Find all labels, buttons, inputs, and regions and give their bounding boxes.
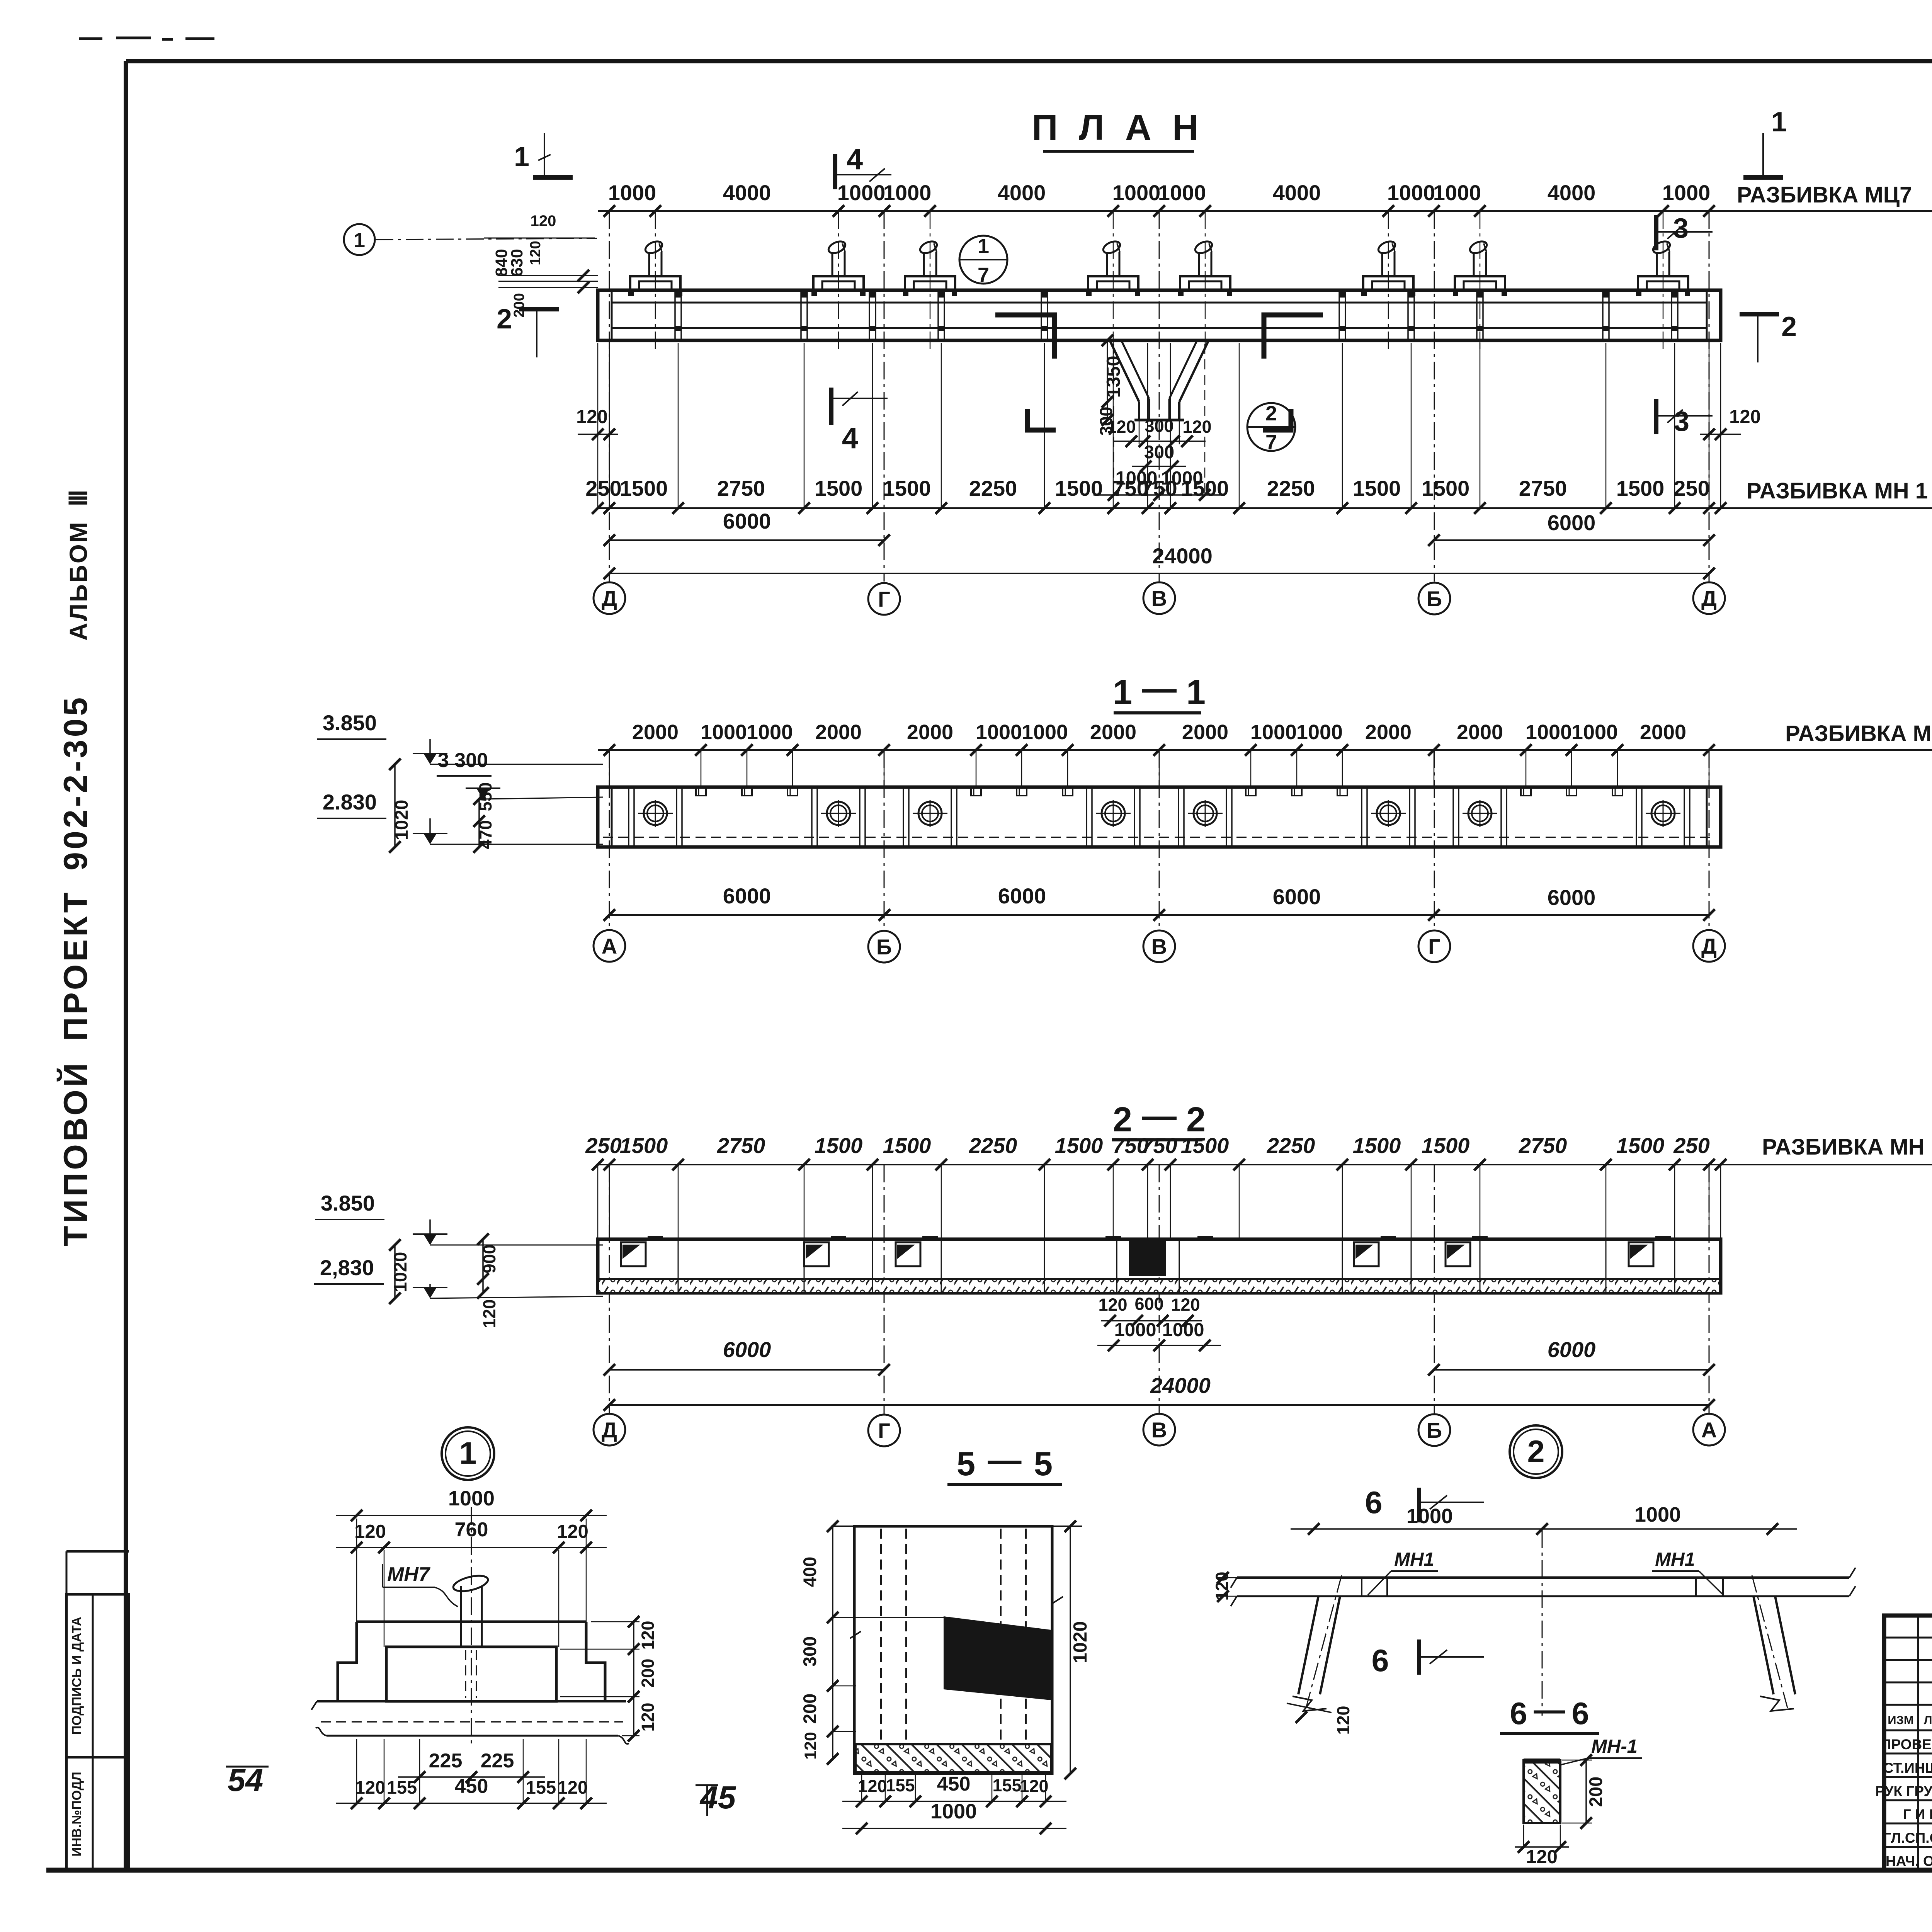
svg-text:ИЗМ: ИЗМ [1888,1713,1914,1727]
svg-text:1000: 1000 [1571,721,1618,744]
detail 2 joint marks [1362,1578,1723,1596]
svg-text:РАЗБИВКА МН 1: РАЗБИВКА МН 1 [1747,478,1928,503]
svg-text:2750: 2750 [717,476,765,500]
svg-text:МН-1: МН-1 [1591,1736,1638,1757]
svg-text:2000: 2000 [1640,721,1686,744]
section 5-5 bottom dims [842,1801,1066,1802]
svg-text:750: 750 [1141,1133,1177,1158]
left strip table [66,1594,129,1870]
svg-text:1000: 1000 [1433,180,1481,205]
svg-text:120: 120 [480,1299,499,1328]
svg-text:6000: 6000 [723,509,771,533]
section 6-6 dim 200 [1585,1760,1587,1823]
svg-text:2.830: 2.830 [323,790,377,814]
svg-text:РУК ГРУППЫ: РУК ГРУППЫ [1875,1783,1932,1799]
svg-text:470: 470 [476,820,495,849]
section 2-2 dim 6000 left [609,1369,884,1371]
svg-text:1000: 1000 [1387,180,1435,205]
svg-text:2250: 2250 [969,476,1017,500]
svg-text:6: 6 [1371,1643,1389,1678]
svg-text:А: А [602,934,617,958]
section 2-2 axis circles [594,1414,625,1446]
svg-text:120: 120 [1182,417,1211,437]
svg-text:1500: 1500 [1422,1133,1470,1158]
svg-text:РАЗБИВКА МН 1: РАЗБИВКА МН 1 [1762,1134,1932,1160]
svg-text:1: 1 [1113,673,1132,712]
plan funnel dim 1350 [1107,340,1108,420]
svg-text:Д: Д [602,1418,617,1442]
section 1-1 end walls [611,787,613,847]
detail 1 dim 225-225 [398,1776,545,1778]
plan panel joints [674,290,676,340]
svg-text:1500: 1500 [1422,476,1470,500]
detail 1 base line [317,1700,626,1702]
svg-text:2: 2 [1781,311,1797,342]
section 1-1 axis circles [594,930,625,962]
section 2-2 dim 1020 [394,1245,396,1298]
detail 1 dim 120-155-450-155-120 [336,1803,607,1804]
svg-text:120: 120 [1019,1776,1048,1796]
svg-text:400: 400 [799,1557,820,1587]
detail 2 dim 1000-1000 [1291,1528,1797,1530]
svg-text:120: 120 [858,1776,887,1796]
svg-text:2000: 2000 [1365,721,1412,744]
svg-text:Г И П: Г И П [1903,1806,1932,1822]
detail 1 centreline [471,1507,472,1747]
svg-text:НАЧ. ОТД.: НАЧ. ОТД. [1886,1853,1932,1869]
svg-text:ЛИСТ: ЛИСТ [1924,1713,1932,1727]
svg-text:200: 200 [1585,1777,1606,1807]
section 2-2 top dimension line [598,1164,1932,1165]
plan bottom extension lines [598,343,1721,509]
svg-text:1000: 1000 [930,1800,977,1823]
svg-text:5: 5 [957,1445,975,1483]
svg-text:1000: 1000 [448,1487,495,1510]
title block frame [1884,1616,1932,1870]
detail 1 top plate [357,1621,586,1623]
plan funnel walls [1110,340,1139,402]
plan dim 6000 left [609,539,884,541]
svg-text:1500: 1500 [620,1133,668,1158]
svg-text:6000: 6000 [1548,1337,1596,1362]
svg-text:1: 1 [514,141,529,172]
svg-text:АЛЬБОМ Ⅲ: АЛЬБОМ Ⅲ [65,488,92,641]
plan funnel dim 120-300-120 [1113,440,1206,442]
plan funnel dim 300 [1132,466,1186,467]
svg-text:Б: Б [1427,587,1442,611]
svg-text:2000: 2000 [815,721,862,744]
section 5-5 right dim 1020 [1070,1526,1071,1774]
svg-text:1000: 1000 [1112,180,1161,205]
svg-text:2000: 2000 [1457,721,1503,744]
svg-text:2750: 2750 [1519,1133,1567,1158]
svg-text:250: 250 [585,1133,621,1158]
svg-text:1500: 1500 [1181,1133,1229,1158]
svg-text:225: 225 [429,1750,463,1772]
svg-text:6000: 6000 [1273,884,1321,909]
svg-text:Д: Д [602,586,617,611]
plan top dimension line [598,210,1932,212]
svg-text:1500: 1500 [1616,1133,1665,1158]
svg-text:3 300: 3 300 [438,749,488,772]
svg-text:Г: Г [878,587,890,611]
section 2-2 funnel opening black [1129,1240,1166,1276]
svg-text:1000: 1000 [701,721,747,744]
svg-text:200: 200 [799,1694,820,1724]
svg-text:6: 6 [1571,1696,1589,1731]
svg-text:225: 225 [481,1750,514,1772]
section 1-1 top dimension line [598,749,1932,751]
svg-text:900: 900 [480,1244,499,1273]
section 5-5 black opening [944,1616,1051,1700]
svg-text:250: 250 [1673,1133,1709,1158]
svg-text:120: 120 [531,213,556,230]
section 1-1 bar outline [598,787,1721,847]
svg-text:1: 1 [978,235,989,258]
svg-text:2000: 2000 [907,721,953,744]
section 5-5 bottom extension lines [862,1774,1046,1803]
svg-text:120: 120 [801,1732,820,1760]
svg-text:2: 2 [1265,402,1277,425]
section 5-5 outline [854,1526,1052,1774]
svg-text:120: 120 [638,1702,658,1731]
svg-text:1500: 1500 [1181,476,1229,500]
svg-text:1020: 1020 [390,1252,410,1293]
svg-text:155: 155 [387,1777,417,1798]
svg-text:1: 1 [1771,107,1787,138]
svg-text:1500: 1500 [1055,1133,1103,1158]
svg-text:Д: Д [1701,586,1717,611]
svg-text:В: В [1151,1418,1167,1442]
svg-text:300: 300 [1144,442,1174,462]
detail 1 right dims 120-200-120 [633,1622,634,1736]
section 2-2 bottom slab line [598,1278,1721,1280]
detail 1 pipe [460,1586,462,1647]
svg-text:—: — [988,1441,1022,1479]
svg-text:2000: 2000 [1182,721,1228,744]
svg-text:120: 120 [638,1621,658,1650]
section 1-1 axis lines [609,750,1709,931]
svg-text:300: 300 [799,1636,820,1667]
svg-text:300: 300 [1145,416,1173,436]
section 2-2 bar outline [598,1239,1721,1293]
svg-text:В: В [1151,586,1167,611]
svg-text:24000: 24000 [1152,544,1213,568]
svg-text:750: 750 [1141,476,1177,500]
svg-text:200: 200 [638,1658,658,1687]
section 5-5 slab [855,1744,1051,1772]
svg-text:1000: 1000 [1250,721,1297,744]
svg-text:120: 120 [557,1521,588,1542]
svg-text:1000: 1000 [837,180,886,205]
svg-text:155: 155 [992,1776,1021,1795]
plan detail bracket bottom-right [1263,409,1291,430]
svg-text:120: 120 [1333,1706,1353,1735]
svg-text:4000: 4000 [1548,180,1596,205]
svg-text:2250: 2250 [1267,1133,1315,1158]
detail 2 centreline [1542,1530,1543,1716]
svg-text:2: 2 [497,304,512,335]
detail 1 bottom extension lines [357,1739,586,1805]
sheet frame top [126,59,1932,63]
sheet frame left [124,61,128,1870]
svg-text:1500: 1500 [883,476,931,500]
section 1-1 dims 550-470 [478,799,480,847]
svg-text:1: 1 [354,229,365,252]
svg-text:2,830: 2,830 [320,1255,374,1280]
svg-text:Г: Г [878,1418,890,1443]
svg-text:120: 120 [1526,1847,1558,1867]
detail 1 pocket [386,1647,556,1701]
plan funnel extension lines [1139,420,1179,444]
svg-text:6: 6 [1510,1696,1527,1731]
svg-text:1000: 1000 [976,721,1022,744]
svg-text:ТИПОВОЙ ПРОЕКТ 902-2-305: ТИПОВОЙ ПРОЕКТ 902-2-305 [57,695,94,1246]
svg-text:1500: 1500 [883,1133,931,1158]
svg-text:РАЗБИВКА МЦ7: РАЗБИВКА МЦ7 [1737,182,1912,207]
svg-text:120: 120 [527,241,544,265]
svg-text:6: 6 [1365,1485,1382,1520]
section 2-2 axis lines [609,1165,1709,1414]
section 6-6 dim 120 [1515,1846,1569,1848]
svg-text:1020: 1020 [391,800,412,840]
svg-text:6000: 6000 [1548,885,1596,910]
plan anchor details МН7 [630,276,680,290]
svg-text:5: 5 [1034,1445,1053,1483]
section 2-2 dim 120-600-120 [1101,1320,1202,1321]
svg-text:2750: 2750 [717,1133,765,1158]
svg-text:1500: 1500 [1055,476,1103,500]
plan axis lines [609,211,1709,582]
svg-text:1000: 1000 [883,180,932,205]
detail 1 dim 1000 [336,1515,607,1516]
detail 1 circle [442,1427,494,1480]
plan bar end wall left [611,290,613,340]
plan left small dims [484,238,595,239]
svg-text:2: 2 [1527,1434,1544,1469]
svg-text:—: — [1142,1097,1177,1135]
svg-text:1500: 1500 [1353,476,1401,500]
plan detail bracket bottom-left [1027,409,1056,430]
svg-text:2250: 2250 [1267,476,1315,500]
svg-text:6000: 6000 [998,884,1046,908]
section 2-2 dims 900-120 [482,1239,484,1293]
detail 1 left step [338,1622,357,1701]
svg-text:4: 4 [842,422,858,455]
svg-text:—: — [1142,669,1177,708]
svg-text:6000: 6000 [723,1337,771,1362]
sheet frame bottom [46,1868,1932,1873]
svg-text:1: 1 [1186,673,1206,712]
svg-text:—: — [1534,1692,1565,1727]
svg-text:6000: 6000 [1548,510,1596,535]
svg-text:1000: 1000 [1162,1320,1204,1340]
svg-text:2000: 2000 [632,721,679,744]
svg-text:450: 450 [937,1773,971,1795]
svg-text:Б: Б [1427,1418,1442,1442]
binding dashes top-left [79,38,214,39]
svg-text:МН1: МН1 [1394,1549,1434,1570]
svg-text:РАЗБИВКА МН 10: РАЗБИВКА МН 10 [1785,721,1932,746]
svg-text:250: 250 [585,476,621,500]
svg-text:3.850: 3.850 [321,1191,375,1215]
svg-text:1500: 1500 [815,1133,863,1158]
section 5-5 left dims [832,1526,833,1759]
section 1-1 holes and panel joints [644,802,667,825]
section 2-2 top extension lines [598,1165,1721,1240]
plan bar wall inner bottom [612,327,1707,329]
section 2-2 dim 24000 [609,1404,1709,1406]
section 6-6 element [1524,1760,1560,1823]
svg-text:550: 550 [476,782,495,811]
svg-text:200: 200 [511,293,527,317]
svg-text:600: 600 [1134,1294,1163,1314]
svg-text:630: 630 [508,249,526,277]
section 1-1 top notches МН10 [696,787,706,796]
svg-text:120: 120 [1107,417,1136,437]
plan dim 6000 right [1434,539,1709,541]
svg-text:4000: 4000 [998,180,1046,205]
svg-text:1000: 1000 [608,180,656,205]
detail 1 extension lines [357,1519,586,1623]
svg-text:24000: 24000 [1150,1373,1211,1398]
svg-text:155: 155 [886,1776,915,1795]
section 2-2 joint lines [678,1239,679,1293]
svg-text:450: 450 [455,1775,488,1798]
plan axis circles [594,582,625,614]
svg-text:120: 120 [576,406,608,427]
plan bottom dimension line [598,507,1932,509]
svg-text:1000: 1000 [1296,721,1343,744]
svg-text:ПРОВЕРИЛ: ПРОВЕРИЛ [1881,1736,1932,1752]
title block left rows [1884,1637,1932,1639]
svg-text:МН7: МН7 [387,1563,430,1586]
section 1-1 top extension lines [609,750,1709,788]
svg-text:3: 3 [1673,213,1689,244]
svg-text:2250: 2250 [969,1133,1017,1158]
detail 2 left leg [1298,1596,1318,1694]
svg-text:1: 1 [459,1436,476,1471]
svg-text:3.850: 3.850 [323,711,377,735]
section 1-1 dim 6000 row [609,914,1709,916]
plan detail bracket top-left [995,315,1054,359]
plan detail circle 2/7 [1247,403,1295,451]
section 2-2 top anchor marks [648,1236,663,1240]
svg-text:1000: 1000 [1022,721,1068,744]
svg-text:1000: 1000 [1114,1320,1156,1340]
detail 2 right leg [1753,1596,1774,1694]
svg-text:120: 120 [558,1777,588,1798]
svg-text:4: 4 [847,143,863,176]
plan bar wall inner top [612,302,1707,304]
svg-text:155: 155 [526,1777,556,1798]
svg-text:СТ.ИНШЕН: СТ.ИНШЕН [1883,1760,1932,1776]
plan bar outer [598,290,1721,340]
svg-text:1000: 1000 [1526,721,1572,744]
svg-text:1500: 1500 [1353,1133,1401,1158]
svg-text:Д: Д [1701,934,1717,958]
svg-text:7: 7 [1265,431,1277,454]
svg-text:Г: Г [1428,934,1440,959]
title block left grid verticals [1918,1616,1932,1870]
svg-text:ИНВ.№ПОДЛ: ИНВ.№ПОДЛ [70,1772,84,1856]
svg-text:1000: 1000 [1662,180,1711,205]
detail 1 dim 120-760-120 [336,1547,607,1548]
plan bar end wall right [1706,290,1708,340]
section 5-5 dim 1000 [842,1828,1066,1829]
plan longitudinal axis circle 1 [344,224,375,255]
svg-text:2750: 2750 [1519,476,1567,500]
plan detail circle 1/7 [959,236,1007,284]
svg-text:МН1: МН1 [1655,1549,1695,1570]
detail 1 bottom line [327,1735,618,1737]
svg-text:Б: Б [876,935,892,959]
svg-text:6000: 6000 [723,884,771,908]
section 5-5 top line [831,1526,1082,1527]
svg-text:1000: 1000 [1634,1503,1681,1526]
svg-text:2000: 2000 [1090,721,1136,744]
section 1-1 dim 1020 [394,764,396,847]
svg-text:П Л А Н: П Л А Н [1032,107,1204,148]
svg-text:1500: 1500 [815,476,863,500]
svg-text:ГЛ.СП.ОТД: ГЛ.СП.ОТД [1883,1830,1932,1846]
plan dim 24000 [609,573,1709,574]
svg-text:1000: 1000 [1406,1505,1453,1528]
svg-text:120: 120 [1729,406,1761,427]
svg-text:1000: 1000 [747,721,793,744]
svg-text:1020: 1020 [1070,1621,1091,1663]
section 2-2 bottom slab hatch [599,1280,1719,1292]
svg-text:120: 120 [354,1521,386,1542]
svg-text:1000: 1000 [1158,180,1206,205]
svg-text:120: 120 [1171,1295,1200,1315]
detail 2 circle [1510,1425,1562,1478]
svg-text:ПОДПИСЬ И ДАТА: ПОДПИСЬ И ДАТА [70,1617,84,1735]
svg-text:А: А [1701,1418,1717,1442]
svg-text:4000: 4000 [1273,180,1321,205]
svg-text:1500: 1500 [1616,476,1665,500]
svg-text:4000: 4000 [723,180,771,205]
detail 1 right step [586,1622,605,1701]
detail 2 slab [1237,1577,1849,1579]
section 1-1 bottom dashed line [603,837,1716,838]
section 5-5 inner hidden lines [881,1529,1026,1743]
svg-text:250: 250 [1673,476,1709,500]
section 2-2 window openings МН1 [621,1242,646,1266]
plan funnel dim 1000-1000 [1094,494,1225,496]
detail 1 hidden line [321,1721,623,1723]
svg-text:120: 120 [355,1777,385,1798]
plan anchor centrelines [655,211,1663,350]
section 2-2 dim 1000-1000 [1097,1345,1221,1346]
plan detail bracket top-right [1264,315,1323,359]
svg-text:1500: 1500 [620,476,668,500]
svg-text:В: В [1151,934,1167,959]
svg-text:7: 7 [978,264,989,287]
section 2-2 dim 6000 right [1434,1369,1709,1371]
svg-text:120: 120 [1098,1295,1127,1315]
